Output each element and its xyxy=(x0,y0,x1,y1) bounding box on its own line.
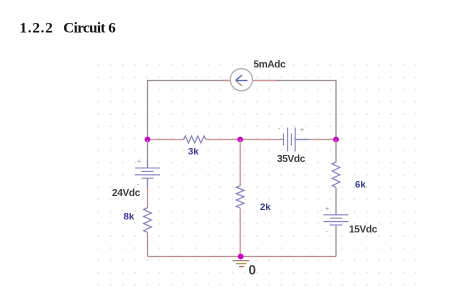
svg-text:15Vdc: 15Vdc xyxy=(349,225,378,236)
wire left node down to 24Vdc xyxy=(147,140,149,159)
wire right node down to 6k xyxy=(335,140,337,163)
svg-text:+: + xyxy=(137,159,141,166)
battery 35Vdc right pin xyxy=(295,139,309,141)
battery V 15Vdc plates xyxy=(324,215,349,225)
wire 2k down to ground rail xyxy=(239,208,241,257)
wire node row middle segment xyxy=(206,139,241,141)
wire pin stub left of current source xyxy=(222,80,231,82)
node junction dot middle xyxy=(237,137,243,143)
node junction dot left xyxy=(145,137,151,143)
current source I1 arrow xyxy=(236,75,248,86)
svg-text:24Vdc: 24Vdc xyxy=(112,188,141,199)
wire 6k to 15Vdc xyxy=(335,188,337,216)
wire 8k to bottom-left corner xyxy=(147,232,149,256)
node junction dot right xyxy=(333,137,339,143)
wire top-left loop (left vertical + top rail + right vertical) xyxy=(148,81,337,140)
resistor R 2k zigzag xyxy=(236,186,244,208)
svg-text:+: + xyxy=(300,127,304,134)
wire node row left segment xyxy=(148,139,185,141)
svg-text:8k: 8k xyxy=(124,212,135,223)
grid dot background xyxy=(96,55,422,292)
battery V 35Vdc plates xyxy=(284,128,296,152)
svg-text:3k: 3k xyxy=(188,146,199,157)
wire bottom rail xyxy=(148,256,337,258)
battery 24Vdc top pin xyxy=(147,158,149,168)
svg-text:1.2.2: 1.2.2 xyxy=(20,21,54,37)
battery 24Vdc bottom pin xyxy=(147,178,149,186)
resistor R 6k zigzag xyxy=(332,162,340,187)
ground junction dot xyxy=(238,254,244,260)
svg-text:0: 0 xyxy=(249,263,257,278)
svg-text:2k: 2k xyxy=(260,202,271,213)
battery 15Vdc bottom pin / wire to corner xyxy=(335,225,337,257)
wire 24Vdc to 8k xyxy=(147,187,149,209)
svg-text:+: + xyxy=(325,206,329,213)
resistor R 8k zigzag xyxy=(144,208,152,233)
svg-text:35Vdc: 35Vdc xyxy=(277,154,306,165)
current source I1 circle xyxy=(230,69,252,91)
battery V 24Vdc plates xyxy=(135,168,160,178)
wire middle node down to 2k xyxy=(239,140,241,187)
svg-text:Circuit 6: Circuit 6 xyxy=(63,21,116,37)
ground symbol 0 xyxy=(233,261,250,267)
svg-text:6k: 6k xyxy=(355,180,366,191)
wire pin stub right of current source xyxy=(252,80,276,82)
wire from middle node to 35Vdc xyxy=(240,139,283,141)
wire 35Vdc to right node xyxy=(309,139,336,141)
svg-text:5mAdc: 5mAdc xyxy=(254,59,287,70)
resistor R 3k zigzag xyxy=(184,136,206,143)
